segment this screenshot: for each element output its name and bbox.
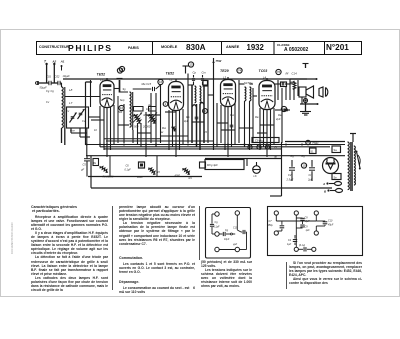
wire seg e bbox=[165, 111, 176, 113]
tube V2 TE52 bbox=[169, 79, 184, 111]
node 74 bbox=[237, 68, 242, 73]
wire mid verticals bbox=[247, 142, 282, 196]
wire bus3 bbox=[104, 148, 282, 150]
capacitor C6 bbox=[125, 162, 145, 172]
speaker bbox=[299, 86, 314, 98]
wire osc bottoms bbox=[124, 85, 161, 157]
faint margin note bbox=[11, 223, 14, 254]
capacitor Cm bbox=[201, 75, 204, 85]
input connector bbox=[36, 81, 48, 90]
label Rg2 bbox=[302, 154, 306, 158]
inductor osc coil bbox=[130, 92, 133, 130]
resistor R1 bbox=[93, 159, 114, 179]
trimmer Cv2 bbox=[66, 109, 77, 123]
wire right net bbox=[278, 79, 298, 143]
capacitor Cr ps bbox=[307, 160, 315, 182]
grid cap V1 bbox=[115, 79, 129, 93]
wire rail top bbox=[86, 155, 345, 157]
label L2 bbox=[170, 78, 174, 82]
wire seg top3 bbox=[239, 83, 253, 85]
antenna sym right bbox=[303, 64, 309, 69]
wire V3 legs bbox=[217, 103, 235, 157]
wire seg k bbox=[192, 121, 204, 123]
ground right bbox=[300, 103, 311, 116]
box Se bbox=[332, 174, 341, 180]
label TE29 bbox=[220, 69, 229, 73]
node 10b bbox=[281, 106, 286, 111]
potentiometer L6 bbox=[253, 162, 261, 178]
wire seg l bbox=[221, 129, 235, 131]
label TE52 V2 bbox=[166, 72, 175, 76]
node 16 bbox=[119, 105, 124, 110]
inductor IF1 bbox=[195, 86, 201, 103]
wire row v110 bbox=[109, 156, 111, 177]
capacitor C02 bbox=[55, 75, 71, 86]
label mid1 bbox=[146, 104, 152, 111]
wire ant to coil bbox=[61, 83, 63, 87]
capacitor mid c bbox=[284, 109, 288, 111]
terminal A ps bbox=[322, 182, 342, 187]
label L4 bbox=[263, 76, 267, 80]
wire V1 legs bbox=[100, 105, 114, 157]
resistor box mid bbox=[203, 81, 208, 87]
node 17 bbox=[119, 66, 124, 71]
box osc bbox=[67, 107, 89, 128]
node 76 bbox=[276, 69, 281, 74]
right bottom text bbox=[289, 261, 362, 285]
wire seg f bbox=[217, 122, 228, 124]
capacitor C5 bbox=[81, 156, 90, 177]
node spk bbox=[304, 99, 308, 103]
column 1 text bbox=[31, 205, 108, 292]
plug T top bbox=[350, 134, 356, 143]
wire mid b bbox=[205, 155, 282, 159]
label L3 bbox=[223, 76, 227, 80]
capacitor C2 ps bbox=[286, 160, 296, 182]
label L7 bbox=[69, 101, 73, 105]
label 750 bbox=[306, 140, 319, 145]
wire V2 legs bbox=[169, 74, 188, 158]
wire V4 legs bbox=[260, 108, 274, 157]
figure box 2 bbox=[268, 207, 363, 256]
figure box 1 bbox=[206, 208, 251, 259]
junction dots bbox=[86, 144, 303, 146]
wire osc vertical bbox=[86, 80, 93, 156]
wire seg g bbox=[239, 127, 253, 129]
label Cm bbox=[202, 71, 207, 75]
resistor R2 bbox=[137, 168, 160, 180]
wire seg i bbox=[275, 109, 290, 111]
terminal A1 bbox=[60, 60, 65, 71]
label TE52 V1 bbox=[97, 73, 106, 77]
node 16b bbox=[158, 79, 163, 84]
node 9 bbox=[203, 109, 208, 114]
figure 1 socket bbox=[210, 211, 247, 252]
capacitor C13 bbox=[142, 82, 155, 91]
figure 2 socket bbox=[268, 211, 334, 252]
caption under figure 1 bbox=[201, 260, 252, 289]
label Rf bbox=[286, 72, 298, 76]
label NO 50v bbox=[244, 81, 253, 85]
rectifier tube V5 bbox=[323, 158, 339, 174]
box S1 bbox=[310, 148, 317, 154]
label L1 bbox=[100, 78, 104, 82]
wire IF2 bbox=[239, 80, 253, 150]
resistor R4 bbox=[175, 168, 193, 180]
resistor V2 leg bbox=[172, 126, 175, 131]
speaker cone2 bbox=[319, 87, 328, 97]
switch mains bbox=[356, 151, 361, 170]
wire cap C13 row bbox=[118, 85, 161, 143]
resistor Rosc bbox=[133, 107, 150, 124]
wire coil bottom bbox=[62, 128, 65, 145]
capacitor mid b bbox=[230, 125, 234, 127]
wire seg y138 bbox=[104, 138, 160, 140]
label Cg2 bbox=[46, 89, 50, 93]
wire seg j bbox=[138, 132, 152, 134]
node 4 bbox=[257, 145, 261, 149]
transformer power bbox=[348, 142, 356, 191]
node 2 bbox=[163, 102, 168, 107]
label mid2 bbox=[184, 116, 190, 123]
box row right bbox=[200, 162, 206, 168]
wire rail bottom bbox=[88, 156, 202, 188]
node 5 bbox=[248, 145, 252, 149]
label L8 bbox=[69, 88, 73, 92]
label Fixe bbox=[70, 129, 97, 133]
label Cg ant bbox=[51, 89, 55, 93]
resistor box right bbox=[281, 82, 287, 87]
capacitor Cp bbox=[192, 75, 195, 85]
label TC03 bbox=[259, 69, 268, 73]
label Cp bbox=[193, 71, 197, 75]
wire bus1 bbox=[87, 144, 345, 146]
wire seg c bbox=[118, 124, 129, 126]
column 2 text bbox=[119, 205, 195, 294]
inductor IF2 bbox=[245, 87, 251, 101]
terminal B ps bbox=[324, 189, 343, 194]
label 75W bbox=[216, 59, 222, 63]
wire seg y141 bbox=[106, 140, 214, 142]
wire bottom long bbox=[91, 187, 332, 189]
label Sup bbox=[118, 99, 125, 114]
capacitor C14 bbox=[290, 82, 293, 84]
label mid5 bbox=[160, 127, 166, 134]
node 14 bbox=[117, 68, 122, 73]
wire seg d bbox=[160, 135, 188, 137]
zigzag right bbox=[293, 81, 296, 90]
wire HT rail bbox=[63, 78, 307, 80]
wire bus2 bbox=[100, 146, 330, 148]
tube V4 TC03 bbox=[259, 78, 275, 110]
wire spk bottom bbox=[300, 97, 319, 105]
wire seg h bbox=[257, 132, 267, 134]
capacitor mid a bbox=[195, 117, 199, 119]
tube V3 TE29 bbox=[221, 77, 236, 107]
tube V1 TE52 bbox=[100, 78, 114, 108]
antenna sym mid bbox=[183, 66, 189, 74]
column dividers bbox=[112, 206, 113, 290]
faint scan frame bbox=[0, 29, 400, 297]
wire IF1 bottoms bbox=[192, 80, 208, 150]
wire power top bbox=[285, 141, 345, 143]
wire seg top4 bbox=[275, 83, 290, 86]
box Sa bbox=[332, 146, 341, 153]
wire spk top bbox=[290, 78, 318, 80]
terminal T bbox=[44, 60, 48, 84]
trimmer Cv1 bbox=[78, 109, 86, 123]
wire 75W bbox=[212, 58, 214, 150]
box C9 bbox=[252, 138, 279, 143]
label Rg1 bbox=[291, 154, 295, 158]
wire coil to grid bbox=[65, 96, 100, 98]
node 3 bbox=[265, 145, 269, 149]
inductor L8 L7 bbox=[62, 87, 65, 128]
box chassis bbox=[205, 160, 244, 170]
node 10 bbox=[301, 163, 306, 168]
terminal A2 bbox=[51, 60, 56, 84]
label Cv3 bbox=[46, 100, 50, 104]
wire seg b bbox=[91, 119, 104, 121]
wire row v157 bbox=[156, 156, 158, 177]
label mid3 bbox=[230, 114, 259, 119]
wire osc box bbox=[71, 117, 100, 137]
label mid4 bbox=[275, 114, 282, 121]
wire seg a bbox=[146, 114, 160, 116]
wire antenna rail bbox=[38, 82, 62, 84]
resistor R 20000 bbox=[134, 107, 157, 129]
capacitor C01 bbox=[46, 75, 51, 86]
node 15 bbox=[188, 62, 193, 67]
wire seg top5 bbox=[208, 95, 257, 96]
wire seg top2 bbox=[188, 84, 208, 86]
label A bus bbox=[274, 145, 277, 149]
wire seg m bbox=[260, 124, 274, 126]
header cartouche bbox=[36, 41, 362, 55]
